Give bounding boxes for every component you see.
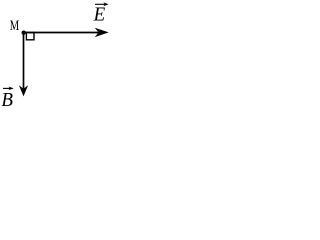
wire (E arrow shaft) [24, 32, 100, 34]
right-angle mark [26, 33, 34, 40]
E arrowhead [95, 28, 109, 37]
wire (B arrow shaft) [23, 32, 25, 89]
B arrowhead [19, 85, 28, 96]
svg-text:B: B [1, 89, 13, 109]
node M dot [22, 31, 26, 35]
vector E label overline arrow [95, 2, 109, 6]
svg-text:M: M [10, 18, 19, 34]
svg-text:E: E [93, 4, 106, 26]
vector B label overline arrow [3, 87, 14, 91]
